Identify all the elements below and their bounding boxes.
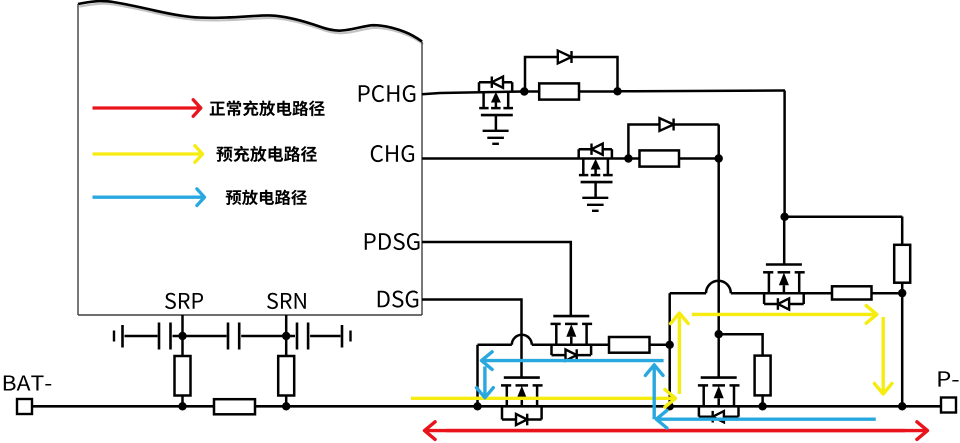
yellow pre-charge path vertical up — [671, 313, 689, 394]
node rail/SRN — [282, 402, 290, 410]
node B — [613, 87, 621, 95]
node D — [715, 154, 723, 162]
node C — [624, 154, 632, 162]
wire SRP pin down — [181, 315, 184, 356]
wire node E-left vertical to rail — [476, 345, 479, 407]
pin label DSG — [378, 291, 418, 308]
wire CHG pin to node C — [422, 157, 640, 160]
node E — [666, 341, 674, 349]
blue pre-discharge path vertical down to rail — [477, 367, 494, 398]
wire CHG vertical bus down to CHG FET gate — [717, 125, 720, 378]
resistor RSNS (current sense) — [214, 399, 255, 414]
legend yellow arrow (pre-charge path) — [93, 146, 203, 163]
node A — [520, 87, 528, 95]
body diode bypass loop wire (PCHG) — [525, 57, 618, 92]
wire R6 to rail — [761, 395, 764, 406]
legend blue arrow (pre-discharge path) — [93, 189, 205, 206]
wire PCHG gate node to top resistor R5 — [785, 216, 903, 219]
pin label CHG — [371, 145, 414, 162]
legend text 正常充放电路径 — [210, 100, 325, 116]
wire node A to node B through R1 — [524, 90, 617, 93]
pin label PCHG — [359, 85, 416, 102]
resistor R2 (CHG series) — [640, 150, 680, 166]
wire R-SRN to rail — [285, 396, 288, 407]
wire R2 to node D — [679, 157, 719, 160]
node SRN — [282, 332, 290, 340]
capacitor C3 (right, from SRN) — [297, 323, 351, 350]
wire DSG pin to DSG FET gate — [422, 300, 522, 378]
main discharge FET Q6 (body diode right) — [501, 378, 543, 426]
diode D1 (PCHG bypass) — [558, 51, 572, 64]
P- terminal square — [941, 398, 956, 413]
red path arrow left (normal charge/discharge) — [425, 422, 906, 440]
resistor R4 (pre-charge series) — [832, 286, 872, 299]
IC U1 left edge — [77, 4, 79, 315]
BAT- terminal square — [17, 399, 32, 414]
legend red arrow (normal charge/discharge path) — [93, 100, 201, 117]
pre-charge drive FET Q1 with gate to ground — [479, 77, 513, 144]
node rail/Q6-left — [473, 402, 481, 410]
wire R-SRP to rail — [181, 396, 184, 407]
wire R3 to node E — [650, 344, 670, 347]
wire node B to right, down to PCHG gate rail — [618, 89, 786, 92]
wire SRN pin down — [285, 315, 288, 356]
terminal label P- — [938, 371, 958, 386]
pin label SRN — [267, 293, 306, 309]
blue pre-discharge path upper horizontal — [482, 352, 664, 370]
resistor R-SRN filter — [278, 356, 294, 396]
node rail/E — [666, 402, 674, 410]
node rail/F — [898, 402, 906, 410]
wire PCHG pin to node A — [422, 93, 440, 94]
capacitor C2 (SRP-SRN differential) — [228, 323, 295, 350]
wire R5 to node F and down to P- rail — [901, 283, 904, 407]
pin label SRP — [165, 293, 203, 309]
wire PDSG pin to pre-discharge FET gate — [422, 242, 571, 317]
yellow pre-charge path horizontal right — [692, 306, 877, 324]
main charge FET Q7 (body diode left) — [698, 378, 740, 423]
wire gate junction to gate resistor R6 — [719, 334, 763, 355]
capacitor C1 (left, to SRP) — [114, 323, 227, 350]
IC U1 torn-edge shadow — [79, 4, 423, 44]
resistor R-SRP filter — [175, 356, 191, 396]
pre-charge pass FET Q5 (body diode left) — [763, 265, 805, 310]
wire gate lead of pre-charge pass FET Q5 — [783, 217, 786, 265]
node rail/SRP — [178, 402, 186, 410]
wire pre-discharge branch with hop over DSG gate wire — [478, 344, 512, 347]
node SRP — [178, 332, 186, 340]
wire main B- rail BAT- to P- — [32, 405, 941, 408]
node rail/R6 — [758, 402, 766, 410]
blue pre-discharge path lower horizontal — [656, 410, 876, 428]
IC U1 right edge — [421, 42, 423, 316]
IC U1 torn top edge — [78, 1, 422, 41]
body diode bypass loop wire (CHG) — [628, 125, 718, 159]
red path arrow right — [446, 422, 928, 440]
wire R4 to node F — [872, 292, 903, 295]
blue pre-discharge path vertical up — [645, 365, 663, 419]
resistor R6 (CHG gate pulldown) — [755, 356, 771, 396]
node F — [898, 289, 906, 297]
diode D2 (CHG bypass) — [660, 118, 674, 131]
IC U1 bottom edge — [78, 314, 422, 316]
wire node E up and over to pre-charge FET Q5 with hop over CHG bus — [668, 293, 671, 345]
yellow pre-charge path horizontal on rail — [411, 390, 676, 408]
legend text 预充放电路径 — [216, 146, 316, 162]
pre-discharge FET Q4 (body diode right) — [551, 316, 593, 361]
pin label PDSG — [365, 233, 420, 250]
node CHG gate junction — [715, 330, 723, 338]
resistor R5 (P- pullup) — [894, 245, 910, 283]
legend text 预放电路径 — [226, 190, 307, 206]
terminal label BAT- — [4, 375, 51, 390]
resistor R1 (PCHG series) — [539, 83, 579, 99]
yellow pre-charge path vertical down — [874, 317, 892, 394]
charge drive FET Q2 with gate to ground — [579, 144, 613, 211]
wire node E down to rail — [668, 345, 671, 407]
resistor R3 (pre-discharge series) — [609, 337, 650, 353]
node gate junction (PCHG) — [780, 213, 788, 221]
